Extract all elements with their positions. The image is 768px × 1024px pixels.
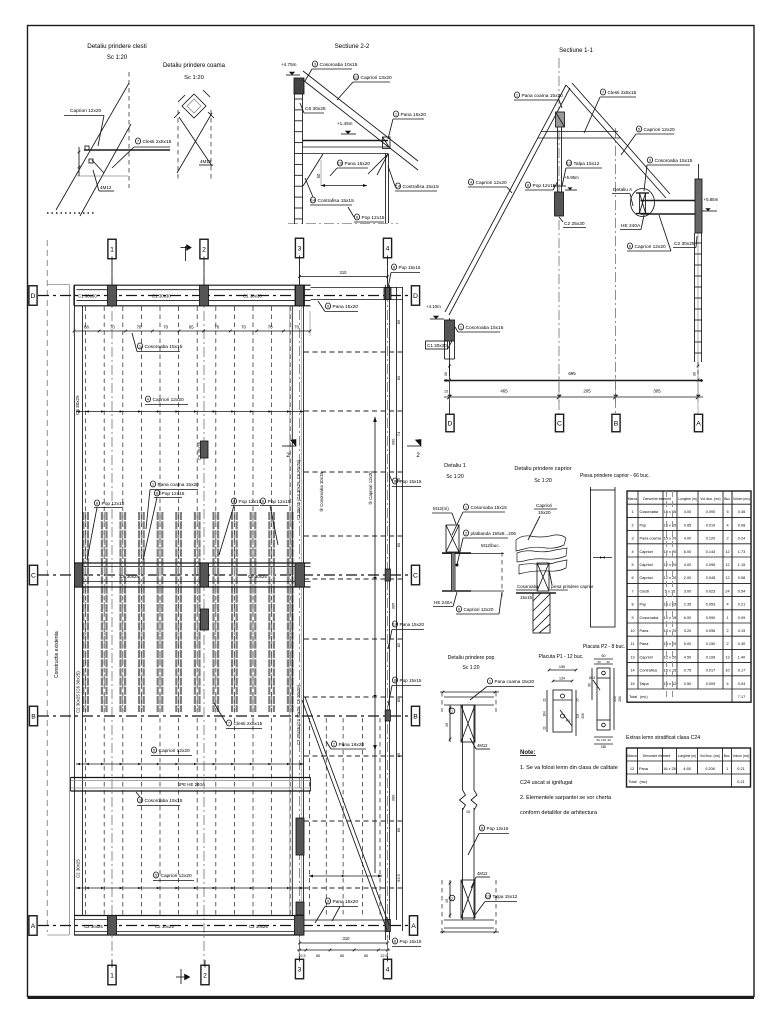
svg-text:Extras lemn stratificat clasa: Extras lemn stratificat clasa C24 — [626, 735, 700, 741]
svg-text:Cosoroaba 15x15: Cosoroaba 15x15 — [471, 505, 508, 510]
svg-text:4: 4 — [726, 603, 728, 607]
svg-text:C: C — [413, 572, 418, 579]
svg-text:0.30: 0.30 — [738, 642, 745, 646]
section 2-2 pana cross-section at right — [383, 137, 391, 149]
section 1-1 right rafter bottom edge — [572, 83, 670, 194]
svg-text:8: 8 — [631, 603, 633, 607]
svg-text:12: 12 — [725, 563, 729, 567]
label 8 Pop 12x15 plan no3 — [231, 498, 236, 504]
IPE HE 240A beam lines — [71, 777, 311, 779]
svg-text:14: 14 — [630, 669, 634, 673]
svg-text:70: 70 — [268, 325, 273, 330]
detail clesti bolt marks — [85, 146, 89, 150]
svg-text:1. Se va folosi lemn din clasa: 1. Se va folosi lemn din clasa de calita… — [520, 765, 618, 771]
svg-text:Clesti 2x5x15: Clesti 2x5x15 — [234, 721, 263, 727]
svg-text:5: 5 — [631, 563, 633, 567]
svg-text:0.096: 0.096 — [706, 563, 716, 567]
svg-text:+1.45m: +1.45m — [337, 121, 353, 126]
svg-text:14: 14 — [311, 198, 316, 203]
label 10 Pana 15x20 right margin — [392, 621, 397, 627]
svg-text:15: 15 — [466, 810, 470, 814]
detail coama dashed boundary left — [177, 110, 179, 180]
pop detail top X brace — [461, 705, 475, 742]
svg-text:0.120: 0.120 — [706, 537, 716, 541]
svg-text:4: 4 — [631, 550, 633, 554]
svg-text:7: 7 — [631, 589, 633, 593]
svg-text:Cosoroaba 15x15: Cosoroaba 15x15 — [466, 325, 504, 331]
row A column block grid1 — [108, 916, 117, 936]
svg-text:0.54: 0.54 — [738, 589, 745, 593]
svg-text:15 x 12: 15 x 12 — [664, 682, 676, 686]
svg-text:C2 25x30: C2 25x30 — [564, 221, 585, 227]
rafter dashed lines right strip below B — [309, 718, 311, 915]
grid line 1 vertical dash-dot — [111, 257, 113, 966]
svg-text:180: 180 — [601, 745, 607, 749]
label C1 30x30 — [426, 341, 448, 349]
svg-text:C1 30x30: C1 30x30 — [427, 343, 447, 348]
svg-text:Capriori: Capriori — [640, 550, 653, 554]
section 1-1 right masonry column ladder — [694, 233, 696, 362]
grid box 2 bottom — [201, 965, 209, 985]
svg-text:205: 205 — [583, 389, 591, 394]
svg-text:C6 30x25: C6 30x25 — [120, 574, 139, 579]
section 1-1 extension ticks at dim points — [449, 376, 451, 402]
row C beam outer lines — [74, 562, 311, 564]
grid box A right — [409, 916, 417, 936]
svg-text:12 x 20: 12 x 20 — [664, 655, 676, 659]
svg-text:Pana 15x20: Pana 15x20 — [401, 112, 427, 118]
svg-text:30: 30 — [693, 372, 697, 376]
section 2-2 ground line — [288, 223, 398, 225]
rafter dashed lines middle panel C-B — [85, 588, 87, 714]
svg-text:Cosoroaba 10x15: Cosoroaba 10x15 — [320, 62, 358, 68]
svg-text:4: 4 — [726, 682, 728, 686]
dashed grid lines through table — [666, 491, 668, 702]
svg-text:300: 300 — [391, 438, 396, 445]
row D column block grid2 — [200, 285, 209, 306]
detail clesti lower tie grey line — [77, 175, 128, 177]
svg-text:4M12: 4M12 — [200, 159, 212, 164]
svg-text:Cosoroaba: Cosoroaba — [517, 584, 539, 589]
svg-text:12 x 20: 12 x 20 — [664, 563, 676, 567]
svg-text:0.053: 0.053 — [706, 603, 716, 607]
svg-text:1: 1 — [631, 510, 633, 514]
svg-text:0.009: 0.009 — [706, 682, 716, 686]
svg-text:Clesti: Clesti — [640, 589, 650, 593]
svg-text:15x20: 15x20 — [538, 510, 551, 515]
svg-text:Sc 1:20: Sc 1:20 — [534, 478, 552, 484]
pop detail small circles top — [449, 708, 455, 714]
piesa plate top ticks — [590, 487, 592, 490]
svg-text:M12/buc.: M12/buc. — [481, 543, 500, 548]
section 1-1 left eave hatched block C1 — [445, 320, 455, 341]
svg-text:Ø13: Ø13 — [589, 676, 595, 680]
svg-text:0.019: 0.019 — [706, 523, 716, 527]
svg-text:Capriori: Capriori — [640, 563, 653, 567]
section 1-1 right wall hatched block — [695, 179, 702, 233]
svg-text:0.17: 0.17 — [738, 669, 745, 673]
svg-text:12: 12 — [567, 161, 572, 166]
svg-text:1: 1 — [726, 616, 728, 620]
svg-text:85: 85 — [396, 542, 401, 547]
grid box B left — [29, 706, 37, 726]
svg-text:0.023: 0.023 — [706, 589, 716, 593]
section 2-2 contrafisa right — [368, 154, 388, 174]
top dim 310 grid3-grid4 — [300, 276, 388, 278]
svg-text:HE 240A: HE 240A — [621, 223, 641, 229]
svg-text:Pop 12x15: Pop 12x15 — [268, 499, 291, 505]
svg-text:12: 12 — [725, 576, 729, 580]
plan capriori dim arrows lower — [76, 887, 304, 889]
svg-text:C24 uscat si ignifugat: C24 uscat si ignifugat — [520, 780, 573, 786]
grid box 1 bottom — [108, 965, 116, 985]
detail clesti rafter edge 1 — [56, 83, 129, 210]
section 2-2 rafter top edge — [303, 71, 418, 161]
svg-text:310: 310 — [340, 270, 348, 275]
detail coama corner stubs — [203, 90, 210, 97]
svg-text:310: 310 — [343, 936, 351, 941]
label 11 Capriori 13x20 — [353, 74, 358, 80]
svg-text:16 x 28: 16 x 28 — [663, 767, 675, 771]
label 1 Pana coama 15x20 pop detail — [487, 678, 492, 684]
svg-text:2: 2 — [726, 642, 728, 646]
plan left wall vertical beam — [74, 285, 76, 935]
section 2-2 ceiling beam bottom — [303, 146, 389, 148]
pop detail mid break symbol — [460, 790, 478, 810]
svg-text:10: 10 — [725, 669, 729, 673]
row D beam extension grid3-grid4 — [311, 287, 404, 289]
svg-text:C: C — [31, 572, 36, 579]
svg-text:10 x 15: 10 x 15 — [664, 616, 676, 620]
svg-text:6.00: 6.00 — [684, 616, 691, 620]
plan dimension line under row D — [74, 330, 310, 332]
svg-text:10: 10 — [630, 629, 634, 633]
existing building outline bottom horizontal — [47, 934, 69, 936]
grid box A left — [29, 916, 37, 936]
svg-text:15 x 20: 15 x 20 — [664, 629, 676, 633]
svg-text:5: 5 — [726, 510, 728, 514]
row D beam inner lines — [77, 289, 311, 291]
svg-text:85: 85 — [396, 697, 401, 702]
grid2 column block below C — [201, 609, 209, 630]
label 6 Capriori 12x20 — [627, 243, 632, 249]
pop detail post verticals — [462, 705, 464, 790]
sketch rafters wavy bundle — [516, 535, 566, 551]
svg-text:P1: P1 — [566, 719, 570, 723]
svg-text:155: 155 — [559, 665, 565, 669]
grid row C horizontal dash-dot — [38, 574, 410, 576]
svg-text:Constructie existenta: Constructie existenta — [54, 631, 60, 678]
svg-text:Denumire element: Denumire element — [643, 497, 671, 501]
svg-text:Detaliu prindere caprior: Detaliu prindere caprior — [514, 466, 571, 472]
section 1-1 collar tie clesti line 2 — [538, 137, 621, 139]
svg-text:15 x 20: 15 x 20 — [664, 642, 676, 646]
svg-text:21: 21 — [543, 698, 547, 702]
placuta P2 left dim 80 — [591, 668, 593, 700]
row A beam extension grid3-grid4 — [304, 919, 391, 921]
svg-text:Pana: Pana — [639, 767, 649, 771]
svg-text:0.08: 0.08 — [738, 523, 745, 527]
svg-text:B: B — [31, 713, 36, 720]
label 8 Pop 12x15 section 1-1 — [525, 182, 530, 188]
section 2-2 contrafisa left — [303, 154, 323, 186]
svg-text:206: 206 — [581, 713, 585, 719]
svg-text:Lungime (m): Lungime (m) — [678, 497, 697, 501]
svg-text:3: 3 — [631, 537, 633, 541]
section 1-1 grid D extension line — [449, 318, 451, 414]
svg-text:85: 85 — [396, 827, 401, 832]
svg-text:0.144: 0.144 — [706, 550, 716, 554]
svg-text:IPE HE 240A: IPE HE 240A — [179, 782, 205, 787]
svg-text:0.208: 0.208 — [705, 767, 715, 771]
svg-text:Capriori: Capriori — [640, 576, 653, 580]
row A beam outer lines — [74, 915, 304, 917]
svg-text:30: 30 — [607, 738, 611, 742]
section 1-1 left rafter bottom edge — [449, 88, 570, 315]
svg-text:9: 9 — [631, 616, 633, 620]
svg-text:Pana 15x20: Pana 15x20 — [333, 304, 359, 310]
svg-text:5.00: 5.00 — [684, 642, 691, 646]
label 8 Pop 12x15 plan no2 — [154, 490, 159, 496]
svg-text:⑤ Capriori 12x20: ⑤ Capriori 12x20 — [368, 471, 373, 505]
section 1-1 right wall face line above — [698, 164, 700, 179]
plan grid3 wall verticals — [291, 306, 293, 915]
detaliu 1 capriori top line — [442, 553, 504, 555]
svg-text:Contrafisa: Contrafisa — [640, 669, 658, 673]
svg-text:Volum (mc): Volum (mc) — [733, 754, 750, 758]
svg-text:50: 50 — [316, 173, 321, 178]
svg-text:C6 30x25: C6 30x25 — [248, 574, 267, 579]
label 1 Cosoroaba 15x15 plan lower — [137, 797, 142, 803]
svg-text:Detaliu prindere pop: Detaliu prindere pop — [448, 655, 495, 661]
label 8 Pop 15x15 right margin y682 — [392, 677, 397, 683]
grid3 wall block above A — [296, 902, 304, 915]
detaliu 1 HE beam web — [451, 553, 453, 591]
svg-text:D: D — [448, 420, 453, 427]
section 1-1 left rafter top edge — [445, 85, 566, 312]
svg-text:12 x 20: 12 x 20 — [664, 576, 676, 580]
svg-text:0.85: 0.85 — [684, 523, 691, 527]
svg-text:0.04: 0.04 — [738, 682, 745, 686]
piesa plate center arrow mark — [593, 557, 612, 559]
svg-text:Capriori 12x20: Capriori 12x20 — [161, 873, 193, 879]
grid box C section 1-1 — [555, 414, 563, 432]
plan right edge line 2 — [402, 287, 404, 931]
section 2-2 wall top dark block — [294, 78, 304, 94]
label 7 Clesti 2x5x15 plan — [226, 720, 231, 726]
svg-text:63.5: 63.5 — [396, 873, 401, 882]
svg-text:2: 2 — [203, 972, 207, 979]
grid row B horizontal dash-dot — [38, 715, 410, 717]
section 1-1 eave post inside circle — [639, 193, 641, 213]
detaliu 1 cosoroaba X square — [446, 525, 459, 552]
svg-text:13: 13 — [486, 894, 491, 899]
svg-text:4.00: 4.00 — [684, 537, 691, 541]
grid4 block at row C — [385, 569, 390, 581]
svg-text:Marca: Marca — [627, 754, 636, 758]
svg-text:2: 2 — [451, 710, 453, 714]
svg-text:0.21: 0.21 — [737, 780, 744, 784]
label 9 Cosoroaba 15x15 — [647, 157, 652, 163]
svg-text:2: 2 — [202, 246, 206, 253]
grid row A horizontal dash-dot — [38, 925, 409, 927]
label 8 Pop 12x15 plan no4 — [260, 498, 265, 504]
svg-text:Pana coama 15x20: Pana coama 15x20 — [495, 679, 535, 684]
grid box B section 1-1 — [612, 414, 620, 432]
svg-text:Buc.: Buc. — [724, 754, 731, 758]
svg-text:12: 12 — [725, 550, 729, 554]
detaliu 1 dashed capriori end — [501, 552, 503, 597]
svg-text:60: 60 — [602, 654, 606, 658]
detail coama ridge diamond — [182, 94, 206, 118]
svg-text:Pana coama 15x20: Pana coama 15x20 — [522, 93, 564, 99]
north arrow top — [185, 246, 187, 261]
svg-text:Talpa: Talpa — [640, 682, 650, 686]
detaliu 1 capriori bottom line — [442, 590, 504, 592]
svg-text:Pana coama: Pana coama — [640, 537, 662, 541]
svg-text:2: 2 — [726, 629, 728, 633]
row D column block grid4 — [384, 288, 391, 300]
svg-text:Total: Total — [629, 780, 637, 784]
svg-text:4M12: 4M12 — [100, 185, 112, 190]
label 6 Capriori 12x20 detaliu1 — [456, 606, 461, 612]
row C beam inner lines — [74, 566, 311, 568]
label 4 Capriori 12x20 plan upper — [145, 396, 150, 402]
svg-text:C1 30x30: C1 30x30 — [78, 294, 97, 299]
section 1-1 HE beam bottom — [641, 213, 700, 215]
svg-text:Buc.: Buc. — [724, 497, 731, 501]
svg-text:Pana 15x20: Pana 15x20 — [333, 899, 359, 905]
svg-text:24: 24 — [725, 589, 729, 593]
label 1 Pana coama 15x20 — [514, 92, 519, 98]
svg-text:0.45: 0.45 — [738, 510, 745, 514]
plan pana coama post strips row — [82, 512, 84, 712]
section 1-1 grid C centerline vertical — [558, 58, 560, 414]
svg-text:220: 220 — [613, 696, 617, 702]
svg-text:C2 30x25: C2 30x25 — [155, 924, 174, 929]
diagonal pana 16x28 line 2 — [305, 697, 390, 926]
svg-text:D: D — [31, 293, 36, 300]
svg-text:Capriori 13x20: Capriori 13x20 — [361, 75, 393, 81]
label 8 Pop 12x15 plan no1 — [94, 500, 99, 506]
svg-text:19: 19 — [445, 899, 449, 903]
grid box 2 top — [200, 239, 208, 259]
svg-text:305: 305 — [391, 602, 396, 609]
svg-text:66: 66 — [84, 325, 89, 330]
section 2-2 masonry wall column — [294, 94, 296, 224]
svg-text:10: 10 — [393, 622, 398, 627]
grid box 3 top — [295, 238, 303, 258]
svg-text:Placuta P2 - 8 buc.: Placuta P2 - 8 buc. — [583, 644, 625, 650]
svg-text:1.40: 1.40 — [738, 655, 745, 659]
placuta P2 bottom dims — [594, 736, 613, 738]
existing building outline top horizontal — [47, 284, 69, 286]
label 13 Talpa 15x12 — [485, 893, 490, 899]
grid2 column block mid D-C — [201, 441, 209, 458]
svg-text:Piesa prindere caprior - 66 bu: Piesa prindere caprior - 66 buc. — [580, 473, 650, 479]
grid4 block at row B — [385, 710, 390, 721]
right strip vertical dimension line 300 — [374, 417, 376, 873]
section 2-2 pop post — [385, 154, 387, 224]
label 14 Contrafisa 15x15 left — [310, 197, 315, 203]
section 2-2 rafter bottom edge — [303, 80, 418, 170]
svg-text:65: 65 — [189, 325, 194, 330]
grid box D right — [411, 286, 419, 306]
extras table rules — [627, 760, 751, 762]
svg-text:15: 15 — [444, 390, 448, 394]
svg-text:0.090: 0.090 — [706, 510, 716, 514]
svg-text:Sectiune 1-1: Sectiune 1-1 — [559, 48, 593, 54]
svg-text:80: 80 — [588, 683, 592, 687]
svg-text:3: 3 — [298, 966, 302, 973]
svg-text:70: 70 — [215, 325, 220, 330]
svg-text:1: 1 — [726, 767, 728, 771]
detail coama crossing rafter 1 — [179, 117, 212, 166]
svg-text:4.00: 4.00 — [684, 563, 691, 567]
svg-text:(mc): (mc) — [640, 695, 648, 699]
svg-text:C3 30x25 (C4 30x25, C6 30x25): C3 30x25 (C4 30x25, C6 30x25) — [296, 684, 301, 745]
detail clesti tie member thick line — [84, 149, 170, 151]
svg-text:Detaliu prindere coama: Detaliu prindere coama — [163, 63, 226, 69]
section 1-1 talpa tick at pop base — [553, 185, 566, 187]
sketch masonry hatched block — [533, 593, 550, 633]
label 2 platbanda — [463, 530, 468, 536]
label 14 Contrafisa 15x15 right — [395, 183, 400, 189]
row A column block grid3 — [295, 916, 305, 936]
label 4 Capriori 12x20 left rafter — [468, 179, 473, 185]
svg-text:C2 30x25: C2 30x25 — [249, 924, 268, 929]
svg-text:Pop 15x15: Pop 15x15 — [400, 678, 422, 683]
placuta P1 dim 155 top — [549, 669, 576, 671]
label 9 Pana 15x20 top strip — [325, 303, 330, 309]
row C column block left — [75, 563, 83, 587]
svg-text:C2 30x25 (C6 30x25): C2 30x25 (C6 30x25) — [76, 671, 81, 713]
svg-text:Pop 15x15: Pop 15x15 — [399, 265, 421, 270]
svg-text:Clesti 2x5x15: Clesti 2x5x15 — [143, 139, 172, 145]
section 1-1 total dimension line 695 — [444, 380, 703, 382]
svg-text:0.24: 0.24 — [738, 537, 745, 541]
svg-text:70: 70 — [294, 325, 299, 330]
svg-text:2: 2 — [451, 897, 453, 901]
section 1-1 grid B centerline vertical — [615, 128, 617, 414]
svg-text:164: 164 — [543, 711, 547, 717]
svg-text:Clesti 2x5x15: Clesti 2x5x15 — [608, 90, 637, 96]
right strip dashed horizontals — [304, 351, 402, 353]
placuta P2 diag label — [593, 680, 600, 690]
svg-text:0.58: 0.58 — [738, 576, 745, 580]
row D beam outer — [74, 284, 311, 286]
svg-text:1: 1 — [110, 246, 114, 253]
label 1 Cosoroaba 15x15 section 1-1 left — [458, 324, 463, 330]
svg-text:19: 19 — [445, 723, 449, 727]
grid line 2 vertical dash-dot — [203, 257, 205, 966]
grid3 wall block between B-A — [296, 818, 304, 855]
section 1-1 left column below — [444, 341, 446, 359]
svg-text:Denumire element: Denumire element — [643, 754, 671, 758]
main table horizontal rules — [627, 503, 751, 505]
svg-text:0.75: 0.75 — [684, 669, 691, 673]
svg-text:Pana: Pana — [640, 642, 650, 646]
svg-text:12: 12 — [630, 767, 634, 771]
section 1-1 ridge pana block — [556, 112, 565, 127]
svg-text:Capriori 12x20: Capriori 12x20 — [476, 180, 508, 186]
row D column block grid3 — [295, 285, 305, 306]
svg-text:B: B — [413, 713, 418, 720]
svg-text:Pop: Pop — [640, 603, 647, 607]
svg-text:15 x 15: 15 x 15 — [664, 603, 676, 607]
svg-text:305: 305 — [653, 389, 661, 394]
svg-text:Capriori 12x20: Capriori 12x20 — [644, 127, 676, 133]
